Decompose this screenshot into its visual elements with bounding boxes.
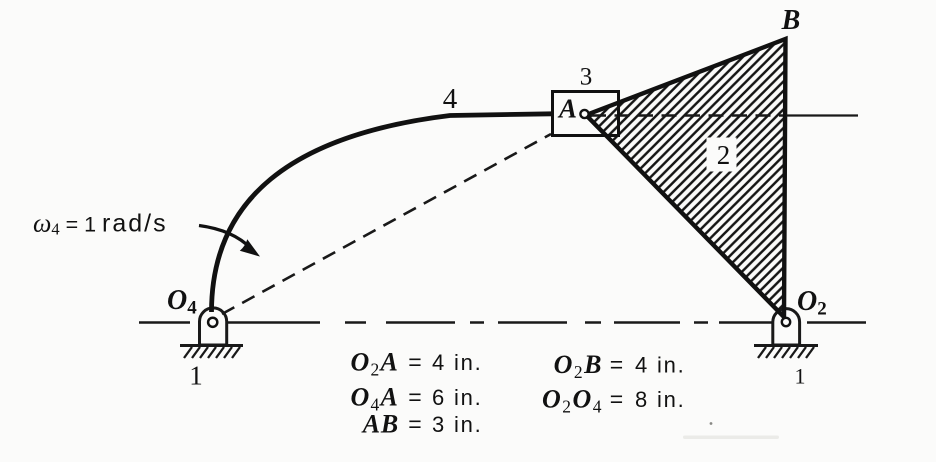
svg-text:A: A [557,94,577,124]
slider block link 3 [553,92,619,136]
svg-text:4 in.: 4 in. [432,350,483,375]
svg-text:3 in.: 3 in. [432,412,483,437]
svg-text:1: 1 [795,364,806,389]
svg-text:=: = [408,384,421,410]
wire: bottom dash-dot centerline O4-O2 [139,321,866,323]
svg-text:=: = [610,386,623,412]
svg-text:=: = [408,411,421,437]
ground symbol at O4 [180,308,243,358]
dimension text column 2 [542,350,686,417]
svg-text:3: 3 [580,64,593,91]
svg-text:4: 4 [443,83,458,115]
node O2 pin circle [782,318,790,326]
svg-text:=: = [610,352,623,378]
wire: dashed horizontal line from A through link 2 [591,114,783,117]
link 2 hatched triangle A-B-O2 [586,39,786,317]
faint scan smudge [710,422,713,425]
link 4 curved arm O4 to A [212,114,553,312]
wire: solid horizontal line right of B edge [786,114,858,116]
wire: dashed construction line O4 to A [222,134,551,314]
label 2 white box [707,138,737,172]
svg-text:6 in.: 6 in. [432,385,483,410]
node O4 pin circle [208,318,217,327]
svg-text:AB: AB [361,410,399,439]
node A pin circle [580,110,588,118]
svg-text:2: 2 [717,140,731,170]
svg-text:4 in.: 4 in. [635,353,686,378]
svg-text:=: = [408,349,421,375]
ground symbol at O2 [754,309,818,358]
svg-text:1: 1 [189,361,203,391]
arrow omega4 [199,226,259,256]
svg-text:B: B [781,5,801,36]
svg-text:8 in.: 8 in. [635,387,686,412]
dimension text column 1 [351,348,483,439]
